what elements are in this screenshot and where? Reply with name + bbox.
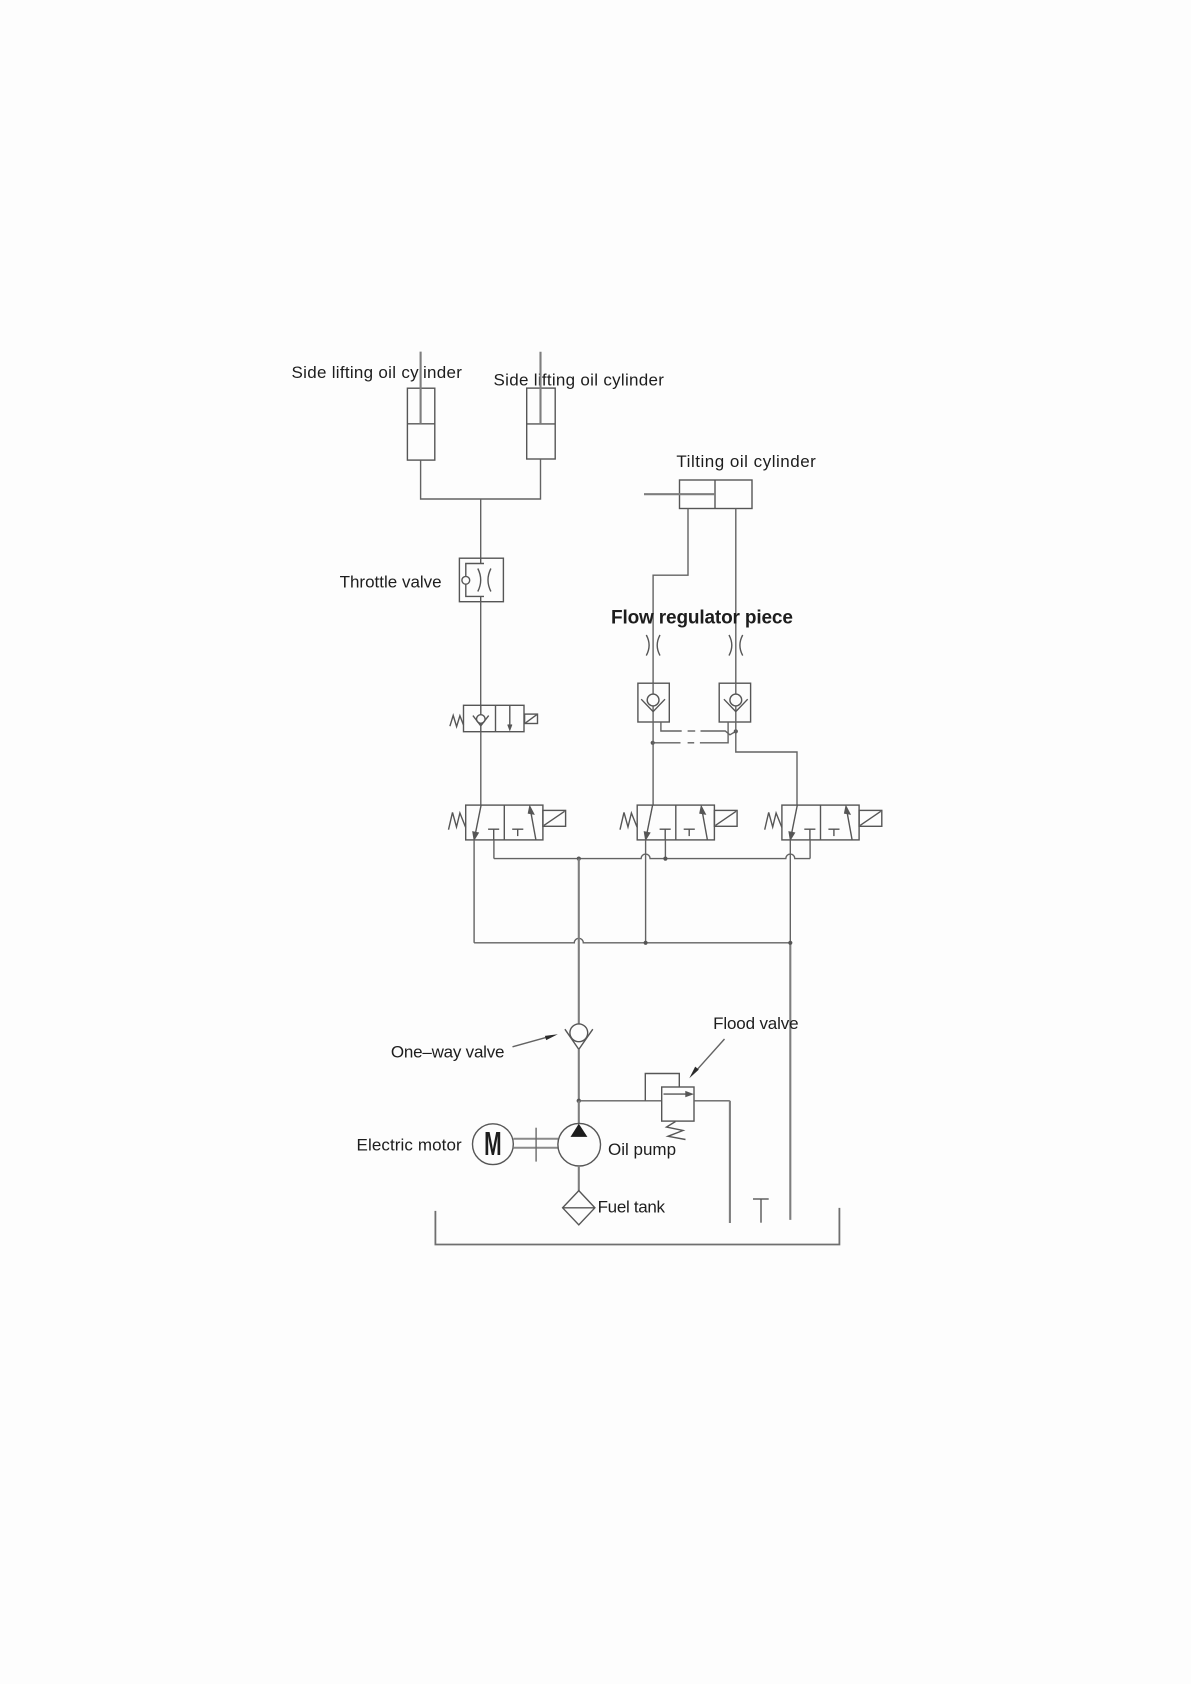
- valve: directional valve V1 (left): [449, 805, 566, 840]
- flood valve (relief valve): [645, 1074, 694, 1140]
- pilot line loop of flood valve: [645, 1074, 679, 1101]
- wire: right line down and over to valve V3: [736, 722, 797, 805]
- wire: tilt cylinder left port with jog: [653, 509, 688, 684]
- svg-text:Flow regulator piece: Flow regulator piece: [611, 608, 793, 629]
- junction dot: V2 tank port on lower bus: [644, 941, 648, 945]
- check valve box right (flow regulator): [719, 683, 750, 722]
- wire: pump to filter: [578, 1166, 580, 1191]
- wire: left line down to valve V2: [652, 722, 654, 805]
- wire: upper pressure bus with hops: [494, 854, 810, 858]
- valve: 2-position pilot check valve: [450, 705, 538, 731]
- cylinder: tilting oil cylinder: [644, 480, 752, 509]
- wire: pressure line from upper bus down to one-way valve: [578, 859, 580, 1024]
- junction dot: pressure line on upper bus: [577, 857, 581, 861]
- solenoid of pilot check valve: [525, 714, 538, 723]
- pilot wire: right box bottom to left line (dashed): [653, 722, 728, 743]
- shaft: motor to pump: [513, 1128, 558, 1162]
- svg-text:Tilting oil cylinder: Tilting oil cylinder: [676, 452, 816, 471]
- junction dot: V3 tank line on lower bus: [788, 941, 792, 945]
- valve: directional valve V2 (middle): [620, 805, 737, 840]
- oil pump: [558, 1123, 601, 1166]
- junction dot on left line: [651, 741, 655, 745]
- wire: V3 pressure port down to upper bus: [809, 840, 811, 859]
- svg-text:Flood valve: Flood valve: [713, 1014, 798, 1033]
- cylinder: side lifting oil cylinder 1: [407, 352, 434, 461]
- electric motor: [473, 1124, 514, 1165]
- svg-text:Electric motor: Electric motor: [357, 1135, 463, 1154]
- valve: directional valve V3 (right): [765, 805, 882, 840]
- pipe end T inside tank: [753, 1199, 769, 1223]
- wire: V1 pressure port down to upper bus: [493, 840, 495, 859]
- filter (fuel tank strainer): [563, 1191, 595, 1225]
- cylinder: side lifting oil cylinder 2: [527, 352, 556, 459]
- svg-text:Throttle valve: Throttle valve: [340, 572, 442, 591]
- wire: junction to flood valve: [579, 1100, 662, 1102]
- throttle valve: [459, 558, 503, 602]
- wire: junction down to throttle valve: [480, 499, 482, 558]
- svg-text:M: M: [484, 1125, 502, 1162]
- check valve box left (flow regulator): [638, 683, 669, 722]
- wire: junction down to pump inlet: [578, 1101, 580, 1124]
- wire: V3 tank port down to tank: [789, 840, 791, 943]
- wire: V1 tank port down to lower bus: [473, 840, 475, 943]
- wire: throttle valve to pilot check valve: [480, 602, 482, 706]
- wire: one-way valve to pump junction: [578, 1049, 580, 1100]
- wire: cylinders to throttle valve junction: [421, 459, 541, 499]
- wire: V2 tank port down to lower bus: [645, 840, 647, 943]
- throttle orifice right (flow regulator): [729, 635, 743, 656]
- svg-text:One–way valve: One–way valve: [391, 1043, 504, 1062]
- junction dot: V2 pressure port on upper bus: [663, 857, 667, 861]
- wire: V2 pressure port down to upper bus: [664, 840, 666, 859]
- leader arrow to flood valve: [689, 1039, 724, 1078]
- wire: lower tank bus with hop: [474, 938, 790, 943]
- spring of flood valve: [667, 1122, 686, 1140]
- svg-text:Side lifting oil cylinder: Side lifting oil cylinder: [494, 371, 665, 390]
- fuel tank outline: [435, 1208, 839, 1245]
- spring of pilot check valve: [450, 715, 464, 726]
- svg-text:Fuel tank: Fuel tank: [598, 1198, 666, 1217]
- svg-text:Oil pump: Oil pump: [608, 1140, 676, 1159]
- wire: flood valve outlet to tank: [694, 1100, 730, 1102]
- leader arrow to one-way valve: [513, 1034, 558, 1047]
- wire: tilt cylinder right port: [735, 509, 737, 684]
- junction dot: pump outlet node: [577, 1099, 581, 1103]
- throttle orifice left (flow regulator): [646, 635, 660, 656]
- junction dot on right line: [734, 729, 738, 733]
- wire: pilot check valve to valve V1: [480, 732, 482, 805]
- one-way valve (check valve): [565, 1024, 593, 1050]
- svg-text:Side lifting oil cylinder: Side lifting oil cylinder: [292, 363, 463, 382]
- pilot wire: left box bottom to right line (dashed): [661, 722, 736, 735]
